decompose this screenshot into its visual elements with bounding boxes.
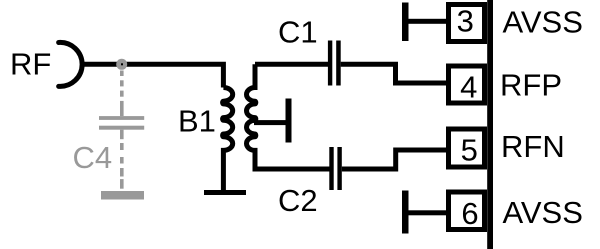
svg-text:5: 5 <box>461 133 478 168</box>
svg-text:C1: C1 <box>278 15 318 50</box>
svg-text:B1: B1 <box>178 103 216 138</box>
svg-text:3: 3 <box>457 4 474 39</box>
svg-text:AVSS: AVSS <box>503 195 583 230</box>
svg-text:RF: RF <box>10 47 51 82</box>
svg-text:RFN: RFN <box>501 129 565 164</box>
svg-text:C2: C2 <box>278 183 318 218</box>
svg-text:RFP: RFP <box>500 68 562 103</box>
svg-text:AVSS: AVSS <box>503 4 583 39</box>
svg-text:C4: C4 <box>73 140 113 175</box>
svg-text:6: 6 <box>461 196 478 231</box>
svg-text:4: 4 <box>460 69 477 104</box>
